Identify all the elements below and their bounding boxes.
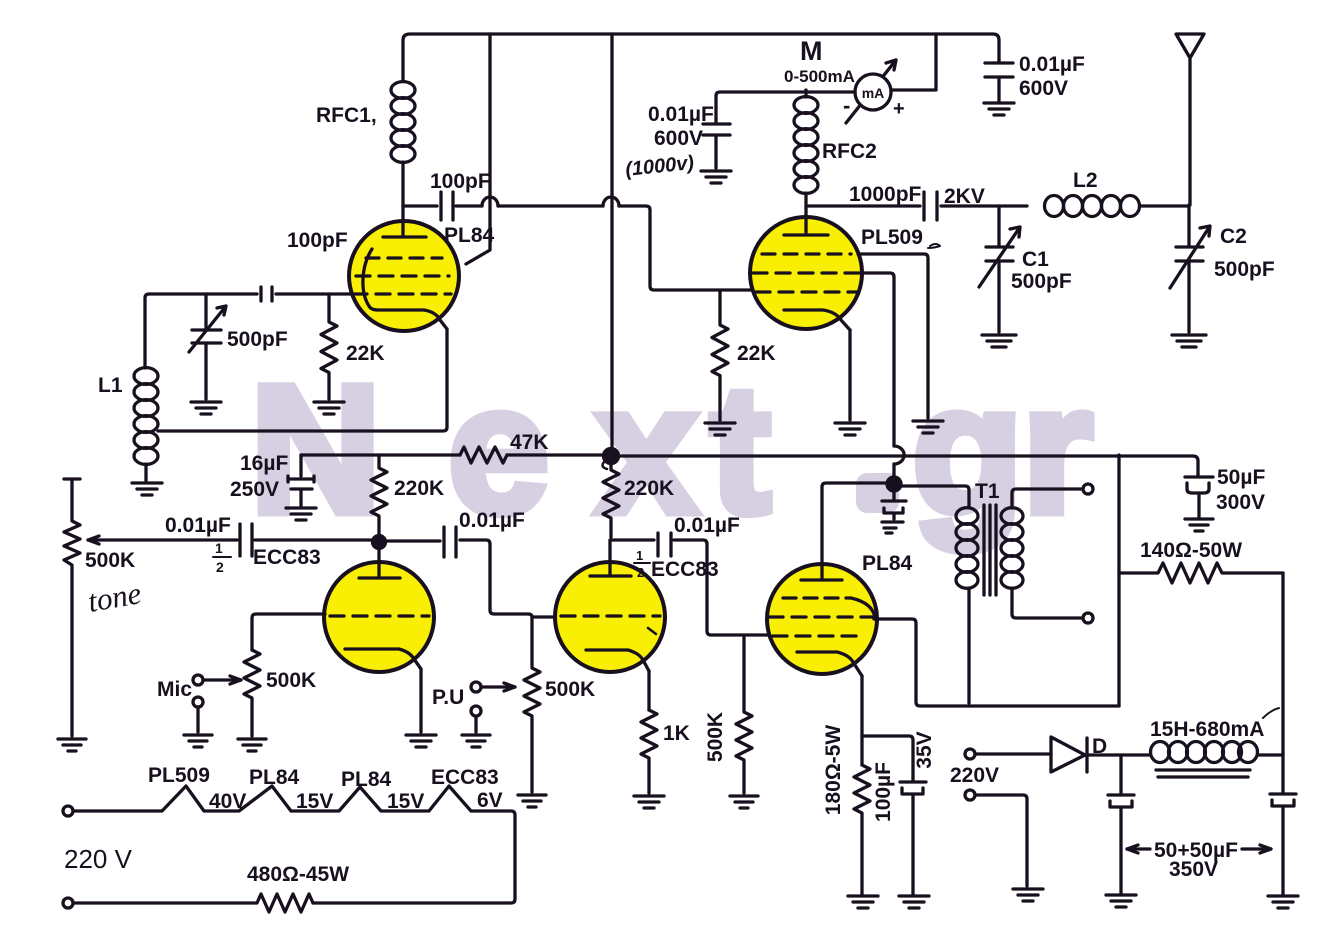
terminal 220V mains bottom bbox=[965, 790, 975, 800]
svg-text:0.01µF: 0.01µF bbox=[648, 103, 714, 126]
wire PL84 screen to HT rail bbox=[466, 34, 490, 264]
antenna bbox=[1176, 34, 1204, 205]
wire PL84 screen line to supply bbox=[874, 619, 1119, 706]
svg-text:C2: C2 bbox=[1220, 225, 1247, 248]
svg-text:2: 2 bbox=[637, 565, 644, 580]
capacitor 0.01uF 600V meter bypass bbox=[624, 103, 730, 181]
potentiometer 500K PU volume bbox=[524, 618, 595, 792]
wire ECC83a cathode bbox=[419, 669, 422, 732]
B+ rail wire bbox=[301, 453, 460, 456]
svg-text:600V: 600V bbox=[654, 127, 703, 150]
svg-text:0.01µF: 0.01µF bbox=[674, 514, 740, 537]
resistor 1K cathode bbox=[641, 710, 690, 793]
svg-text:2: 2 bbox=[216, 559, 224, 575]
svg-text:PL84: PL84 bbox=[249, 766, 300, 789]
terminal secondary top bbox=[1083, 484, 1093, 494]
ground tone pot bbox=[58, 739, 86, 751]
node anode junction ECC83a bbox=[373, 536, 386, 549]
svg-text:22K: 22K bbox=[737, 342, 776, 365]
svg-text:1: 1 bbox=[215, 540, 223, 556]
tube PL84 modulator bbox=[767, 552, 913, 676]
ground PU pot bbox=[518, 795, 546, 807]
wire L1 bottom bbox=[144, 464, 147, 481]
ground ECC83a cathode bbox=[406, 735, 436, 747]
wire grid line down to L1 bbox=[145, 294, 149, 368]
capacitor 0.01uF interstage 2 bbox=[611, 514, 769, 635]
wire T1 secondary bottom to terminal bbox=[1012, 588, 1082, 618]
capacitor 16uF 250V bbox=[230, 452, 314, 506]
ground 500K grid pot bbox=[730, 796, 758, 808]
wire diode to choke bbox=[1087, 753, 1150, 756]
capacitor 100pF grid bbox=[149, 229, 352, 301]
svg-text:ECC83: ECC83 bbox=[253, 546, 321, 569]
svg-text:500pF: 500pF bbox=[1011, 270, 1072, 293]
svg-text:r: r bbox=[1022, 347, 1093, 551]
tube ECC83 second audio bbox=[555, 540, 719, 672]
tube PL509 bbox=[750, 217, 940, 330]
svg-text:1K: 1K bbox=[663, 722, 690, 745]
ground 22K PA bbox=[705, 423, 735, 435]
B+ rail wire right bbox=[618, 456, 1198, 474]
ground PU jack bbox=[462, 735, 490, 747]
svg-text:C1: C1 bbox=[1022, 248, 1049, 271]
svg-text:500pF: 500pF bbox=[1214, 258, 1275, 281]
svg-text:L2: L2 bbox=[1073, 169, 1098, 192]
svg-text:PL84: PL84 bbox=[341, 768, 392, 791]
svg-text:47K: 47K bbox=[510, 431, 549, 454]
ground 50uF bbox=[1185, 519, 1213, 531]
diode D bbox=[1051, 735, 1107, 772]
ground C2 bbox=[1172, 335, 1206, 347]
wire PL509 cathode bbox=[848, 330, 851, 420]
capacitor 0.01uF 600V rail bypass bbox=[985, 53, 1085, 101]
svg-text:35V: 35V bbox=[913, 731, 936, 768]
svg-text:tone: tone bbox=[85, 575, 144, 619]
svg-text:100µF: 100µF bbox=[872, 762, 895, 822]
capacitor 50uF 300V bbox=[1185, 466, 1265, 517]
svg-text:220 V: 220 V bbox=[64, 844, 133, 874]
wire tone wiper arrow bbox=[88, 536, 237, 544]
ground 500pF bbox=[191, 402, 221, 414]
wire node to T1 primary bbox=[901, 486, 969, 506]
svg-text:T1: T1 bbox=[975, 480, 1000, 503]
wire ECC83b cathode bbox=[647, 671, 650, 710]
svg-text:15V: 15V bbox=[387, 790, 424, 813]
svg-text:RFC1,: RFC1, bbox=[316, 104, 377, 127]
wire mains top to diode bbox=[975, 752, 1051, 755]
ground output filter bbox=[1268, 896, 1298, 908]
inductor L1 bbox=[98, 368, 158, 465]
ground mains bbox=[1013, 889, 1043, 901]
svg-text:0.01µF: 0.01µF bbox=[165, 514, 231, 537]
svg-text:500pF: 500pF bbox=[227, 328, 288, 351]
svg-text:RFC2: RFC2 bbox=[822, 140, 877, 163]
wire T1 primary bottom bbox=[967, 588, 970, 703]
svg-text:500K: 500K bbox=[266, 669, 316, 692]
svg-text:15H-680mA: 15H-680mA bbox=[1150, 718, 1264, 741]
svg-text:mA: mA bbox=[862, 85, 885, 101]
capacitor 50uF output filter bbox=[1270, 753, 1296, 894]
potentiometer 500K PL84 grid bbox=[704, 635, 752, 793]
svg-text:50µF: 50µF bbox=[1217, 466, 1265, 489]
svg-text:300V: 300V bbox=[1216, 491, 1265, 514]
resistor 22K oscillator grid leak bbox=[321, 294, 385, 399]
svg-text:0.01µF: 0.01µF bbox=[1019, 53, 1085, 76]
svg-text:220V: 220V bbox=[950, 764, 999, 787]
wire hop over screen line bbox=[482, 197, 498, 206]
wire to ECC83b grid bbox=[528, 614, 556, 617]
variable capacitor C1 500pF bbox=[979, 206, 1072, 332]
wire meter branch from rail bbox=[892, 34, 936, 90]
terminal 220V mains top bbox=[965, 749, 975, 759]
svg-text:N: N bbox=[250, 347, 381, 551]
potentiometer 500K tone bbox=[64, 479, 144, 736]
transformer T1 bbox=[956, 480, 1023, 595]
ground C1 bbox=[982, 335, 1016, 347]
potentiometer 500K mic volume bbox=[244, 650, 316, 736]
tube PL84 oscillator bbox=[349, 221, 495, 331]
svg-text:600V: 600V bbox=[1019, 77, 1068, 100]
wire RFC2 to PL509 anode bbox=[804, 193, 807, 217]
wire 140ohm to rectifier output bbox=[1281, 573, 1284, 753]
svg-text:15V: 15V bbox=[296, 790, 333, 813]
label 50+50uF 350V with arrows bbox=[1127, 839, 1271, 881]
wire meter to bypass cap bbox=[716, 92, 855, 122]
wire mains bottom to ground bbox=[975, 795, 1027, 886]
wire PL509 screen down with hop bbox=[862, 273, 894, 446]
svg-text:180Ω-5W: 180Ω-5W bbox=[822, 725, 845, 816]
HT feed wire rail to B+ line bbox=[610, 34, 613, 450]
svg-text:40V: 40V bbox=[209, 790, 246, 813]
ground 16uF bbox=[286, 508, 316, 520]
capacitor 100uF 35V cathode bypass bbox=[862, 731, 936, 894]
svg-text:350V: 350V bbox=[1169, 858, 1218, 881]
choke RFC1 bbox=[316, 82, 415, 163]
wire supply feed vertical bbox=[1117, 455, 1120, 706]
jack PU input bbox=[432, 682, 515, 732]
resistor 220K first stage anode bbox=[371, 455, 444, 538]
svg-text:M: M bbox=[800, 36, 823, 66]
wire heater chain with tube heaters bbox=[73, 786, 515, 903]
svg-text:0.01µF: 0.01µF bbox=[459, 509, 525, 532]
svg-text:P.U: P.U bbox=[432, 686, 464, 709]
wire to PL509 grid corner bbox=[619, 206, 751, 290]
svg-text:0-500mA: 0-500mA bbox=[784, 67, 855, 86]
svg-text:PL84: PL84 bbox=[862, 552, 913, 575]
svg-text:1: 1 bbox=[636, 548, 643, 563]
svg-text:500K: 500K bbox=[545, 678, 595, 701]
wire anode to coupling cap bbox=[385, 539, 440, 542]
ground 180ohm bbox=[848, 896, 878, 908]
ground rail bypass bbox=[984, 103, 1014, 115]
wire PL84 cathode bbox=[860, 676, 863, 765]
choke RFC2 bbox=[794, 90, 877, 193]
meter M 0-500mA bbox=[784, 36, 905, 123]
svg-text:500K: 500K bbox=[85, 549, 135, 572]
svg-text:140Ω-50W: 140Ω-50W bbox=[1140, 539, 1242, 562]
resistor 180ohm 5W cathode bbox=[822, 725, 870, 894]
resistor 22K PA grid leak bbox=[712, 291, 776, 420]
ground mic jack bbox=[184, 735, 212, 747]
svg-text:-: - bbox=[843, 93, 850, 118]
svg-text:6V: 6V bbox=[477, 789, 503, 812]
wire PL84 cathode to L1 tap bbox=[158, 329, 447, 431]
terminal secondary bottom bbox=[1083, 613, 1093, 623]
variable capacitor 500pF tank bbox=[189, 294, 288, 399]
wire PL509 g3 to ground bbox=[858, 254, 928, 418]
svg-text:100pF: 100pF bbox=[287, 229, 348, 252]
terminal heater chain left bbox=[63, 806, 73, 816]
svg-text:100pF: 100pF bbox=[430, 170, 491, 193]
svg-text:16µF: 16µF bbox=[240, 452, 288, 475]
svg-text:250V: 250V bbox=[230, 478, 279, 501]
resistor 47K bbox=[460, 431, 549, 463]
ground g3 bbox=[913, 421, 943, 433]
svg-text:2KV: 2KV bbox=[944, 185, 985, 208]
ground 100uF bbox=[899, 896, 929, 908]
capacitor 0.01uF interstage 1 bbox=[444, 509, 528, 614]
resistor 480ohm 45W dropper bbox=[73, 863, 349, 912]
wire 100pF to PL509 grid bbox=[498, 204, 603, 207]
node B+ junction bbox=[603, 449, 619, 470]
svg-text:ECC83: ECC83 bbox=[431, 766, 499, 789]
ground mic pot bbox=[238, 739, 266, 751]
capacitor 1000pF 2KV bbox=[806, 183, 1027, 220]
svg-text:480Ω-45W: 480Ω-45W bbox=[247, 863, 349, 886]
wire T1 secondary top to terminal bbox=[1012, 489, 1082, 508]
wire 47K to junction bbox=[507, 453, 604, 456]
tube ECC83 first audio bbox=[324, 545, 434, 672]
svg-text:220K: 220K bbox=[394, 477, 444, 500]
capacitor 0.01uF tone bbox=[165, 514, 373, 575]
svg-text:1000pF: 1000pF bbox=[849, 183, 922, 206]
capacitor 100pF anode coupling bbox=[403, 170, 491, 220]
svg-text:22K: 22K bbox=[346, 342, 385, 365]
inductor L2 bbox=[1045, 169, 1190, 217]
svg-text:Mic: Mic bbox=[157, 678, 192, 701]
terminal heater chain bottom bbox=[63, 898, 73, 908]
ground bypass cap bbox=[701, 171, 731, 183]
svg-text:+: + bbox=[893, 98, 905, 120]
svg-text:PL509: PL509 bbox=[148, 764, 210, 787]
ground 22K bbox=[314, 402, 344, 414]
variable capacitor C2 500pF bbox=[1170, 205, 1275, 332]
svg-text:500K: 500K bbox=[704, 712, 727, 762]
svg-text:L1: L1 bbox=[98, 374, 123, 397]
wire mic pot to grid bbox=[252, 614, 325, 650]
HT top rail wire bbox=[403, 34, 999, 80]
wire RFC1 to PL84 anode bbox=[401, 162, 404, 222]
svg-text:PL84: PL84 bbox=[444, 224, 495, 247]
ground input filter bbox=[1106, 895, 1136, 907]
wire hop over HT feed line bbox=[603, 197, 619, 206]
resistor 140ohm 50W bbox=[1119, 539, 1283, 583]
ground PL509 cathode bbox=[835, 423, 865, 435]
wire PL84 anode up to node bbox=[822, 483, 888, 564]
resistor 220K second stage anode bbox=[603, 463, 674, 537]
ground L1 bbox=[132, 483, 162, 495]
svg-text:PL509: PL509 bbox=[861, 226, 923, 249]
choke 15H-680mA bbox=[1150, 708, 1283, 777]
ground 1K bbox=[634, 796, 664, 808]
node screen modulation junction bbox=[887, 477, 901, 491]
capacitor screen bypass bbox=[882, 491, 906, 533]
jack Mic input bbox=[157, 675, 241, 732]
svg-text:220K: 220K bbox=[624, 477, 674, 500]
svg-text:(1000v): (1000v) bbox=[624, 152, 695, 181]
capacitor 50uF input filter bbox=[1108, 755, 1134, 893]
